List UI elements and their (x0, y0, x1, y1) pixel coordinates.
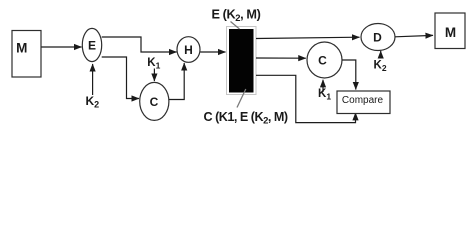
svg-text:Compare: Compare (342, 95, 384, 106)
svg-text:M: M (445, 25, 456, 40)
svg-text:M: M (16, 41, 27, 56)
svg-text:E (K2, M): E (K2, M) (212, 7, 261, 24)
svg-text:D: D (373, 30, 382, 44)
svg-text:E: E (88, 39, 96, 53)
svg-text:C (K1, E (K2, M): C (K1, E (K2, M) (204, 110, 288, 127)
svg-text:H: H (184, 43, 193, 57)
svg-text:K1: K1 (318, 88, 331, 102)
svg-text:K2: K2 (86, 94, 100, 110)
svg-text:C: C (150, 95, 159, 109)
svg-text:K1: K1 (147, 57, 160, 71)
svg-text:K2: K2 (374, 60, 387, 74)
svg-text:C: C (318, 53, 327, 67)
